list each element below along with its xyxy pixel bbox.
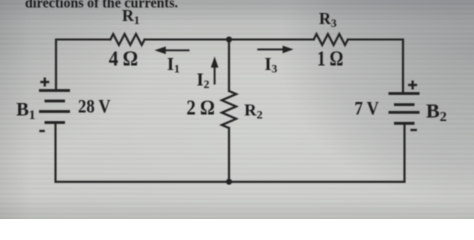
resistor R1 xyxy=(110,34,144,45)
resistor R3 xyxy=(314,34,348,45)
svg-text:directions of the currents.: directions of the currents. xyxy=(25,0,178,12)
wire top-left segment xyxy=(56,40,110,91)
current arrow I1 xyxy=(155,47,190,55)
battery B2 xyxy=(389,94,420,124)
battery B1 xyxy=(39,91,70,123)
node bottom junction xyxy=(226,179,232,185)
svg-text:28 V: 28 V xyxy=(78,96,111,117)
battery B1 plus xyxy=(40,78,49,87)
battery B1 minus xyxy=(39,130,45,132)
svg-text:2 Ω: 2 Ω xyxy=(187,95,215,119)
current arrow I2 xyxy=(211,57,219,85)
resistor R2 xyxy=(222,91,236,128)
svg-text:7 V: 7 V xyxy=(355,98,380,119)
wire top-middle segment xyxy=(145,38,314,40)
svg-text:4 Ω: 4 Ω xyxy=(109,46,138,70)
battery B2 plus xyxy=(408,81,417,90)
wire middle branch upper xyxy=(228,40,230,92)
wire left-bottom segment xyxy=(56,123,405,182)
wire middle branch lower xyxy=(228,128,230,182)
svg-text:1 Ω: 1 Ω xyxy=(317,46,343,70)
battery B2 minus xyxy=(410,129,417,131)
wire top-right segment xyxy=(348,40,403,94)
node top junction xyxy=(226,37,232,43)
current arrow I3 xyxy=(257,46,293,54)
